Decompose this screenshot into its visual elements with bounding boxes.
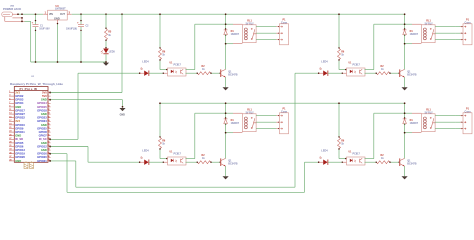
svg-text:12: 12 — [47, 109, 50, 111]
svg-text:100UF(16): 100UF(16) — [66, 29, 77, 31]
svg-text:GPIO27: GPIO27 — [15, 112, 25, 116]
svg-text:16: 16 — [47, 116, 50, 118]
svg-text:23: 23 — [9, 131, 12, 133]
svg-text:3V3: 3V3 — [15, 90, 20, 94]
svg-text:3V3: 3V3 — [15, 119, 20, 123]
svg-text:10: 10 — [47, 106, 50, 108]
svg-text:1: 1 — [45, 10, 47, 14]
svg-text:5: 5 — [9, 98, 11, 100]
svg-text:C2: C2 — [86, 25, 90, 27]
svg-text:GPIO3: GPIO3 — [15, 98, 24, 102]
svg-text:GND: GND — [41, 141, 47, 145]
svg-text:GPIO6: GPIO6 — [15, 144, 24, 148]
svg-text:8: 8 — [47, 102, 49, 104]
svg-text:GPIO15: GPIO15 — [37, 105, 47, 109]
svg-text:6: 6 — [47, 98, 49, 100]
svg-text:GPIO11: GPIO11 — [15, 130, 25, 134]
svg-text:+: + — [77, 21, 79, 25]
svg-text:20: 20 — [47, 124, 50, 126]
svg-text:GPIO25: GPIO25 — [37, 126, 47, 130]
svg-text:GPIO21: GPIO21 — [37, 159, 47, 163]
svg-text:19: 19 — [9, 124, 12, 126]
svg-text:POWER JACK: POWER JACK — [3, 7, 21, 11]
svg-text:ID_SC: ID_SC — [39, 137, 47, 141]
svg-text:GND: GND — [41, 98, 47, 102]
svg-text:37: 37 — [9, 156, 12, 158]
svg-text:3: 3 — [9, 95, 11, 97]
svg-text:39: 39 — [9, 160, 12, 162]
svg-text:GPIO8: GPIO8 — [39, 130, 48, 134]
svg-text:GPIO2: GPIO2 — [15, 94, 24, 98]
svg-text:1k: 1k — [108, 34, 111, 37]
svg-text:GPIO20: GPIO20 — [37, 155, 47, 159]
svg-text:1: 1 — [9, 91, 11, 93]
svg-text:21: 21 — [9, 127, 12, 129]
svg-text:GPIO9: GPIO9 — [15, 126, 24, 130]
svg-text:LED5: LED5 — [109, 50, 116, 53]
svg-text:30: 30 — [47, 142, 50, 144]
svg-text:GPIO12: GPIO12 — [37, 144, 47, 148]
svg-text:10UF-50V: 10UF-50V — [39, 29, 50, 31]
svg-text:GPIO14: GPIO14 — [37, 101, 47, 105]
svg-text:C1: C1 — [40, 25, 44, 27]
svg-text:GPIO13: GPIO13 — [15, 148, 25, 152]
svg-text:GPIO19: GPIO19 — [15, 152, 25, 156]
svg-text:GPIO22: GPIO22 — [15, 116, 25, 120]
svg-text:35: 35 — [9, 152, 12, 154]
svg-text:GPIO7: GPIO7 — [39, 134, 48, 138]
svg-text:3: 3 — [69, 10, 71, 14]
svg-text:9: 9 — [9, 106, 11, 108]
svg-text:25: 25 — [9, 134, 12, 136]
svg-text:GPIO26: GPIO26 — [15, 155, 25, 159]
svg-text:GPIO10: GPIO10 — [15, 123, 25, 127]
svg-text:GND: GND — [15, 159, 21, 163]
svg-text:GPIO23: GPIO23 — [37, 116, 47, 120]
svg-text:GND: GND — [41, 148, 47, 152]
svg-text:22: 22 — [47, 127, 50, 129]
svg-text:27: 27 — [9, 138, 12, 140]
svg-text:GPIO16: GPIO16 — [37, 152, 47, 156]
svg-text:U1: U1 — [31, 76, 35, 78]
svg-text:38: 38 — [47, 156, 50, 158]
svg-text:11: 11 — [9, 109, 12, 111]
svg-text:+: + — [32, 21, 34, 25]
svg-text:2: 2 — [47, 91, 49, 93]
svg-text:ID_SD: ID_SD — [15, 137, 23, 141]
svg-text:29: 29 — [9, 142, 12, 144]
svg-text:GND: GND — [54, 16, 60, 20]
svg-text:VIN: VIN — [49, 14, 53, 16]
svg-text:GPIO18: GPIO18 — [37, 108, 47, 112]
svg-text:15: 15 — [9, 116, 12, 118]
svg-text:GPIO17: GPIO17 — [15, 108, 25, 112]
svg-text:GND: GND — [41, 123, 47, 127]
svg-text:GND: GND — [15, 134, 21, 138]
svg-text:LM7805T: LM7805T — [55, 8, 66, 11]
svg-text:26: 26 — [47, 134, 50, 136]
svg-text:GND: GND — [41, 112, 47, 116]
svg-text:13: 13 — [9, 113, 12, 115]
svg-text:18: 18 — [47, 120, 50, 122]
svg-text:7: 7 — [9, 102, 11, 104]
svg-text:31: 31 — [9, 145, 12, 147]
svg-text:GPIO24: GPIO24 — [37, 119, 47, 123]
svg-text:GPIO4: GPIO4 — [15, 101, 24, 105]
svg-text:GND: GND — [120, 113, 126, 116]
svg-text:Raspberry Pi Pins_W_Through_Ho: Raspberry Pi Pins_W_Through_Hole — [10, 82, 63, 86]
svg-text:17: 17 — [9, 120, 12, 122]
svg-text:OUT: OUT — [60, 14, 65, 16]
svg-text:GND: GND — [15, 105, 21, 109]
svg-text:GPIO5: GPIO5 — [15, 141, 24, 145]
svg-text:33: 33 — [9, 149, 12, 151]
